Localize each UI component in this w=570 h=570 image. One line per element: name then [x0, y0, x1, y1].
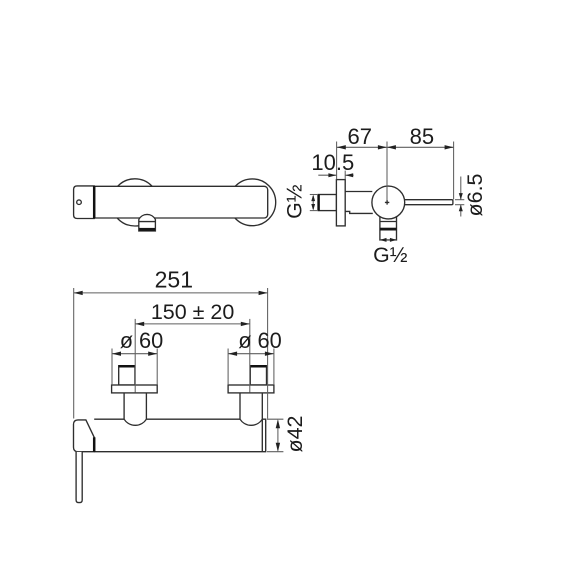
tube left (bottom view) [124, 393, 146, 419]
lever end cap (bottom view) [74, 420, 95, 452]
dimension phi60 left [112, 328, 163, 385]
flange left (bottom view) [112, 385, 158, 393]
svg-text:G½: G½ [373, 243, 408, 267]
rod end extension ticks [455, 199, 464, 201]
side view group [310, 124, 487, 267]
body end seam [261, 419, 263, 452]
valve body circle (side view) [372, 186, 405, 219]
flange right (bottom view) [228, 385, 274, 393]
lever rod (side view) [404, 200, 453, 205]
center extension line into circle [386, 142, 388, 203]
svg-text:251: 251 [155, 267, 193, 293]
center mark [385, 200, 389, 204]
inlet stub thick left edge [317, 195, 320, 211]
cap separator thick line (bottom view) [93, 437, 96, 451]
dimension 251 [74, 267, 268, 419]
body (bottom view) [94, 419, 266, 452]
escutcheon circle right (front view) [229, 179, 276, 226]
dimension phi42 [267, 415, 307, 452]
tube right rounded end [240, 419, 262, 425]
dimension 67 [337, 124, 387, 179]
spout aerator band [139, 228, 155, 231]
svg-text:ø6.5: ø6.5 [463, 173, 487, 216]
outlet thread band [380, 228, 397, 231]
dimension phi 6.5 [459, 173, 487, 216]
dimension G1/2 outlet [373, 238, 408, 267]
front view group [74, 179, 307, 231]
spout seam line [139, 221, 156, 223]
body (front view) [74, 186, 268, 218]
stub left thick top [119, 365, 135, 368]
stub left (bottom view) [119, 366, 135, 385]
svg-text:150 ± 20: 150 ± 20 [151, 300, 235, 324]
wall flange (side view) [336, 180, 345, 226]
svg-text:ø42: ø42 [283, 415, 307, 452]
outlet connector (side view) [380, 215, 397, 240]
dimension 85 [387, 124, 454, 200]
body tube top line (side view) [345, 191, 372, 193]
svg-text:ø 60: ø 60 [120, 328, 164, 353]
body tube bottom line (side view) [345, 211, 373, 213]
lever end cap (front view) [74, 186, 95, 219]
svg-text:ø 60: ø 60 [238, 328, 282, 353]
lever handle (bottom view) [76, 452, 82, 503]
stub right (bottom view) [250, 366, 266, 385]
dimension G1/2 inlet stub [310, 195, 317, 211]
tube left rounded end [124, 419, 146, 425]
stub right thick top [250, 365, 266, 368]
tube right (bottom view) [240, 393, 262, 419]
bottom view group [74, 267, 307, 503]
dimension 10.5 [311, 150, 354, 179]
dimension 150 +/- 20 [135, 300, 250, 393]
shower outlet spout (front view) [139, 214, 156, 231]
lever hole [77, 200, 82, 205]
dimension phi60 right [228, 328, 282, 385]
svg-text:85: 85 [410, 124, 434, 149]
svg-text:G½: G½ [282, 184, 306, 219]
inlet stub (side view) [318, 195, 336, 211]
cap separator line [93, 186, 96, 218]
escutcheon circle left (front view) [111, 179, 158, 226]
outlet seam line [380, 221, 397, 223]
svg-text:67: 67 [348, 124, 372, 149]
svg-text:10.5: 10.5 [311, 150, 354, 175]
